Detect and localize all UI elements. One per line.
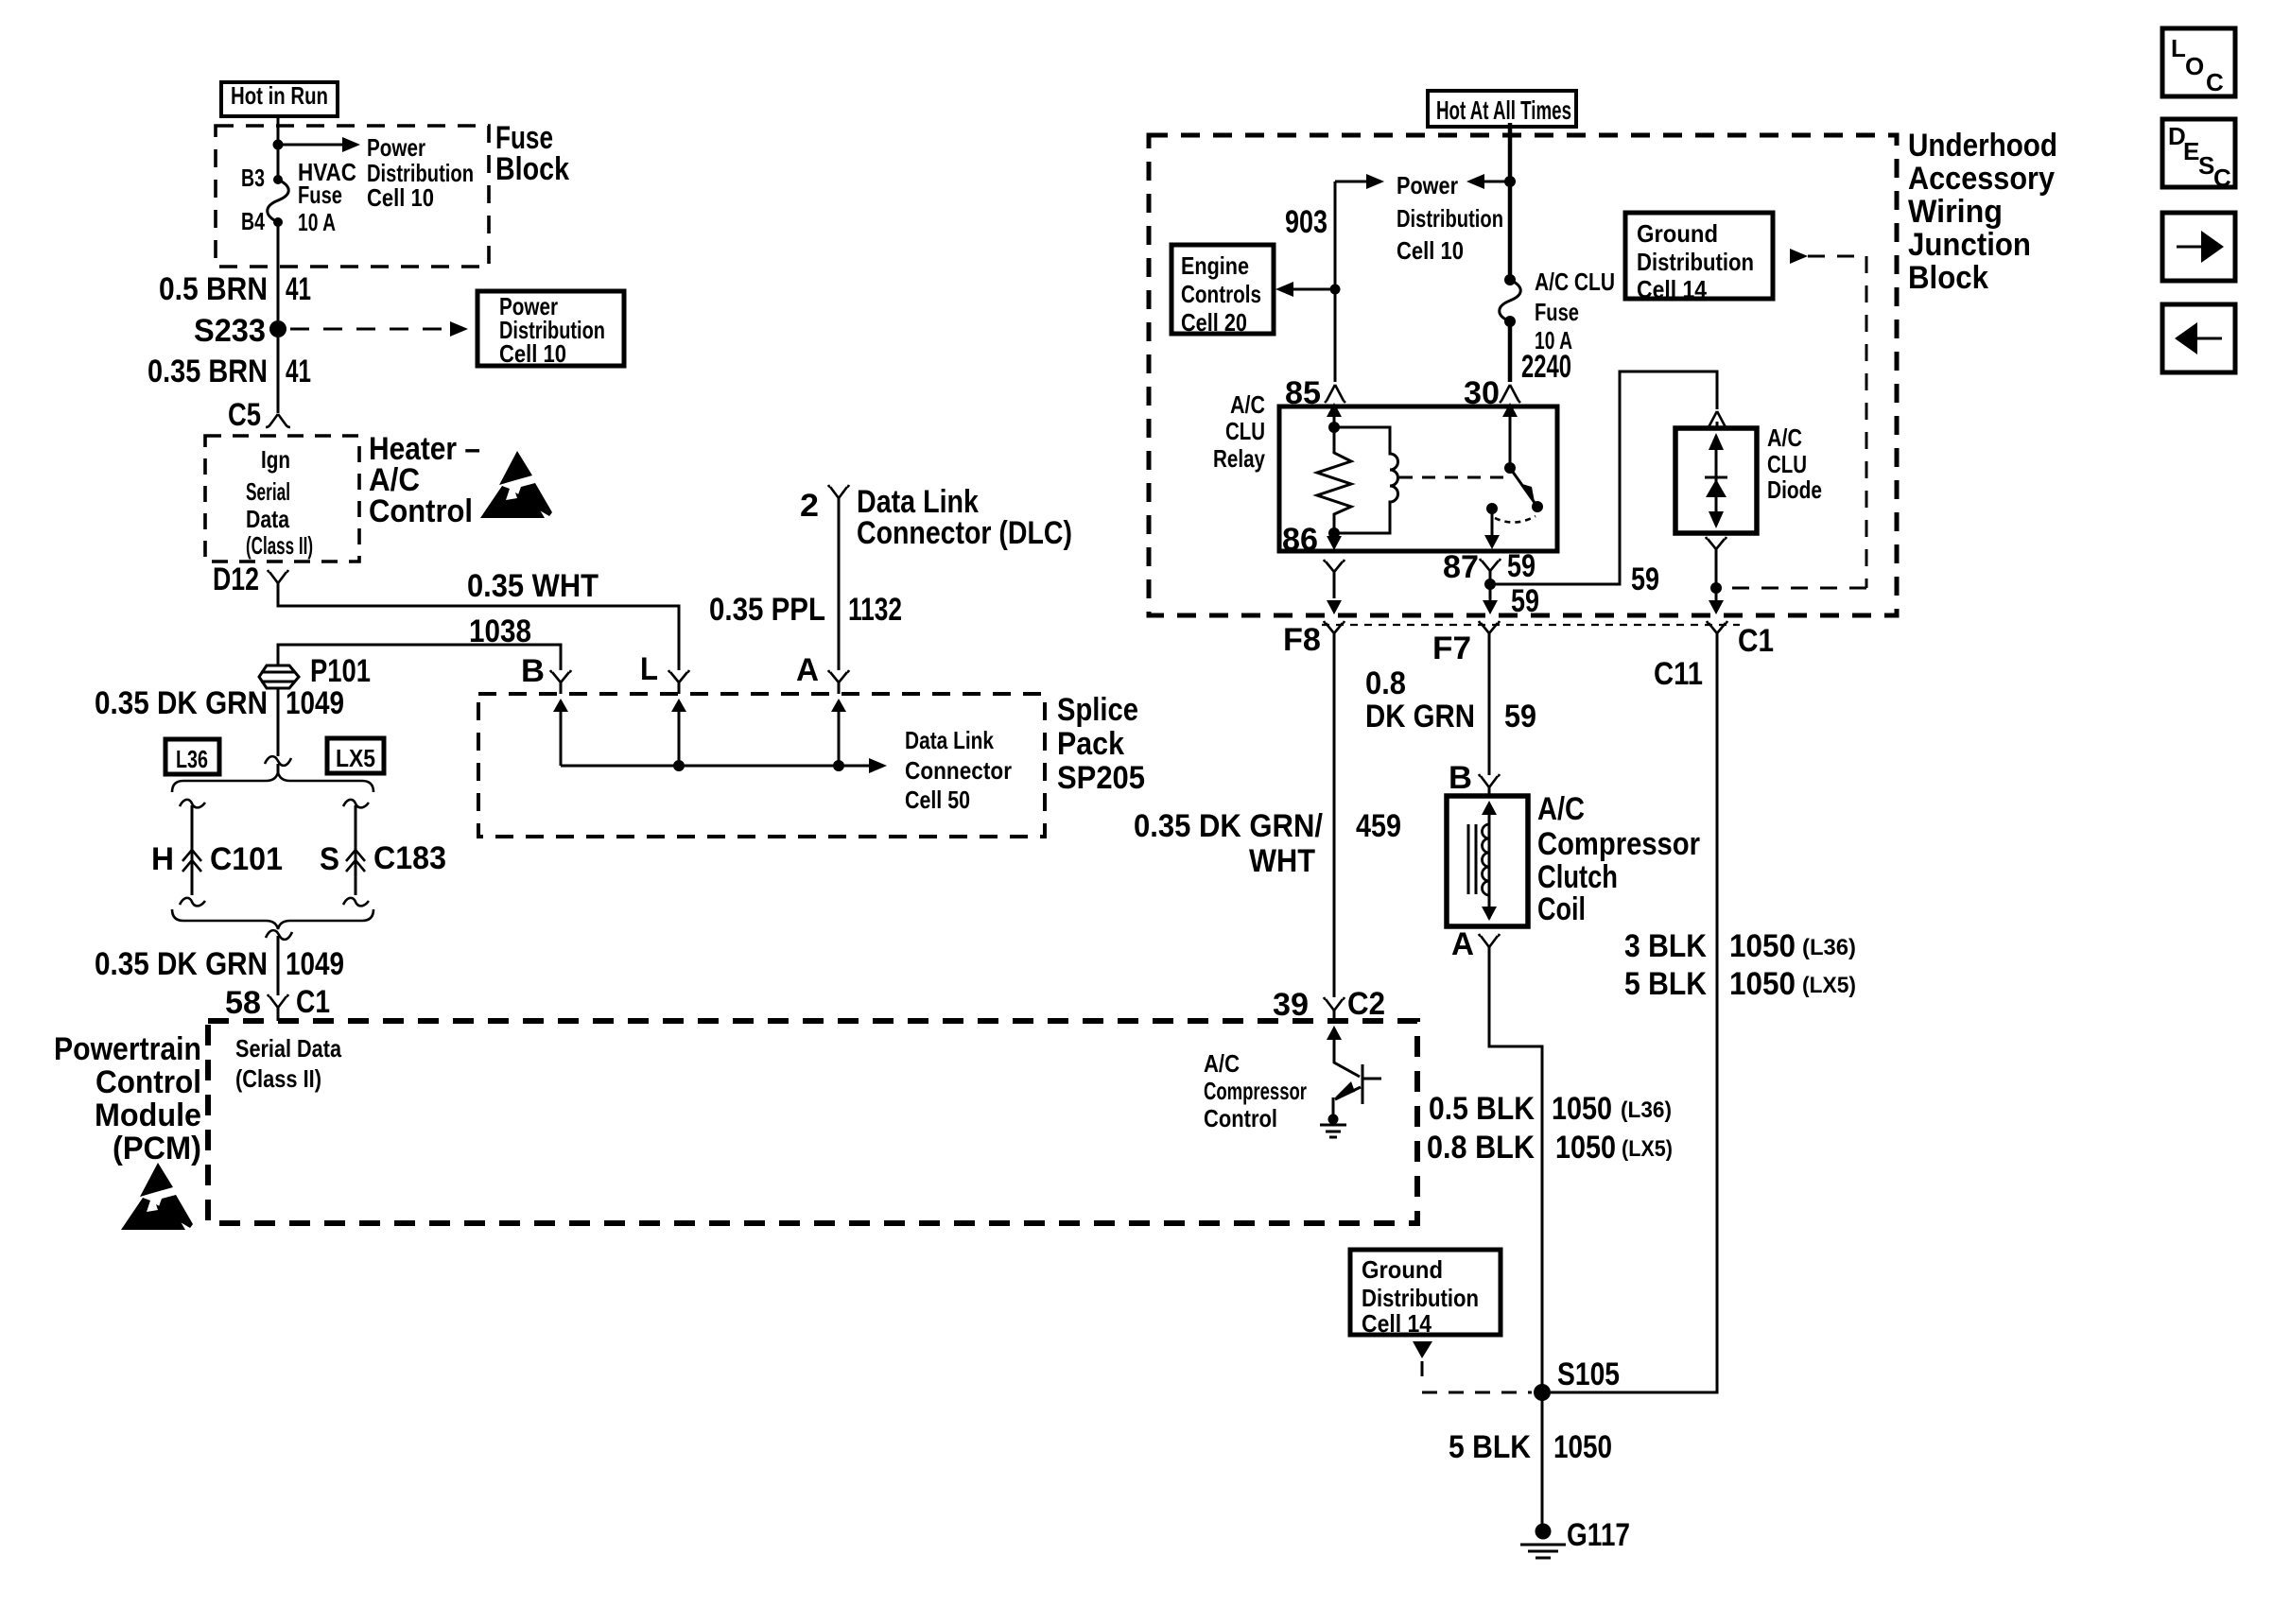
svg-text:A/C CLU: A/C CLU xyxy=(1535,268,1615,296)
wire: 0.35 DK GRN/WHT 459 from F8 to PCM C2 xyxy=(1333,633,1336,997)
svg-text:Hot At All Times: Hot At All Times xyxy=(1436,95,1571,125)
svg-text:LX5: LX5 xyxy=(336,744,375,772)
transistor emitter with arrow xyxy=(1333,1087,1361,1116)
svg-text:L36: L36 xyxy=(176,745,208,773)
svg-text:B: B xyxy=(521,653,545,689)
node: bus junction at A xyxy=(833,760,844,771)
svg-text:Cell 10: Cell 10 xyxy=(1397,236,1464,265)
svg-text:0.8 BLK: 0.8 BLK xyxy=(1427,1130,1535,1166)
svg-text:Controls: Controls xyxy=(1181,280,1261,308)
svg-text:Cell 20: Cell 20 xyxy=(1181,308,1247,337)
svg-text:F7: F7 xyxy=(1432,631,1471,666)
fuse block dashed box xyxy=(216,126,489,267)
internal arrow up to A xyxy=(838,712,841,766)
connector Y at DLC xyxy=(828,485,849,498)
svg-text:1049: 1049 xyxy=(286,685,344,721)
relay switch common terminal xyxy=(1486,503,1498,514)
arrow left to Engine Controls Cell 20 xyxy=(1293,288,1335,291)
svg-text:Distribution: Distribution xyxy=(1397,204,1503,233)
legend icon box LOC xyxy=(2162,28,2235,96)
clutch plates xyxy=(1468,824,1476,894)
svg-text:O: O xyxy=(2185,52,2204,80)
splice S105 xyxy=(1534,1384,1551,1401)
svg-text:1132: 1132 xyxy=(848,592,902,628)
svg-text:C101: C101 xyxy=(210,841,283,877)
svg-text:0.5 BRN: 0.5 BRN xyxy=(159,271,268,307)
svg-text:59: 59 xyxy=(1511,583,1539,619)
arrow left to Power Distribution Cell 10 xyxy=(1484,181,1510,183)
svg-text:Clutch: Clutch xyxy=(1537,859,1618,895)
svg-text:Connector: Connector xyxy=(905,756,1012,785)
A/C CLU Relay box xyxy=(1279,406,1557,551)
coil winding wavy xyxy=(1483,824,1489,895)
svg-text:0.35 DK GRN: 0.35 DK GRN xyxy=(95,946,268,982)
svg-text:Fuse: Fuse xyxy=(298,181,342,209)
reference box: Power Distribution Cell 10 xyxy=(477,291,624,366)
Heater A/C Control dashed box xyxy=(205,436,359,561)
svg-text:C5: C5 xyxy=(228,397,261,433)
svg-text:Cell 10: Cell 10 xyxy=(499,339,566,368)
wire: 0.35 BRN 41 from S233 to C5 xyxy=(277,329,280,413)
svg-text:0.35 PPL: 0.35 PPL xyxy=(709,592,825,628)
svg-text:Accessory: Accessory xyxy=(1908,161,2055,197)
svg-text:3 BLK: 3 BLK xyxy=(1624,928,1707,964)
A/C CLU Diode box xyxy=(1675,428,1757,533)
svg-text:0.35 DK GRN: 0.35 DK GRN xyxy=(95,685,268,721)
svg-text:S: S xyxy=(320,841,339,877)
svg-text:Control: Control xyxy=(1204,1104,1277,1132)
svg-text:Control: Control xyxy=(95,1064,201,1100)
svg-text:0.8: 0.8 xyxy=(1365,665,1406,701)
svg-text:E: E xyxy=(2183,137,2199,165)
svg-text:59: 59 xyxy=(1507,548,1536,584)
svg-text:C11: C11 xyxy=(1654,656,1703,692)
transistor base bar xyxy=(1362,1064,1364,1104)
svg-text:Block: Block xyxy=(495,151,569,187)
inline connection symbol below brace xyxy=(266,930,292,940)
svg-text:459: 459 xyxy=(1356,808,1401,844)
splice S233 xyxy=(269,320,286,337)
svg-text:C1: C1 xyxy=(296,984,330,1020)
branch H (C101) xyxy=(180,800,205,808)
internal arrow up to L xyxy=(678,712,681,766)
svg-text:S: S xyxy=(2198,151,2214,180)
svg-text:A/C: A/C xyxy=(1767,423,1802,452)
wire: 0.5 BRN 41 from fuse to S233 xyxy=(277,222,280,320)
legend icon box right-arrow xyxy=(2162,213,2235,281)
svg-text:Cell 50: Cell 50 xyxy=(905,786,970,814)
svg-text:A/C: A/C xyxy=(1230,390,1265,419)
svg-text:Wiring: Wiring xyxy=(1908,194,2003,230)
svg-text:(Class II): (Class II) xyxy=(235,1064,321,1093)
Underhood Accessory Wiring Junction Block dashed box xyxy=(1149,135,1897,615)
svg-text:CLU: CLU xyxy=(1767,450,1807,478)
junction block connector face (thin dashed) xyxy=(1322,624,1740,626)
svg-text:Control: Control xyxy=(369,493,473,529)
reference box: Ground Distribution Cell 14 (top) xyxy=(1625,213,1773,299)
svg-text:59: 59 xyxy=(1631,561,1659,597)
dashed reference arrow S233 to Power Distribution Cell 10 xyxy=(290,328,448,331)
relay coil exit arrow to 86 xyxy=(1333,533,1336,536)
svg-text:(L36): (L36) xyxy=(1621,1097,1672,1123)
svg-text:Data Link: Data Link xyxy=(905,726,994,754)
fuse HVAC Fuse 10 A xyxy=(268,180,289,222)
svg-text:C: C xyxy=(2206,68,2224,96)
node: feed junction dot xyxy=(1504,176,1516,187)
svg-text:DK GRN: DK GRN xyxy=(1365,699,1475,734)
wire: 1050 ground leg from C1 down to S105 xyxy=(1551,633,1717,1392)
reference box: Engine Controls Cell 20 xyxy=(1171,245,1274,334)
svg-text:A: A xyxy=(796,652,819,688)
svg-text:41: 41 xyxy=(286,271,311,307)
svg-text:P101: P101 xyxy=(310,653,371,689)
svg-text:Cell 14: Cell 14 xyxy=(1637,275,1707,303)
svg-text:Distribution: Distribution xyxy=(1362,1284,1479,1312)
svg-text:C1: C1 xyxy=(1738,623,1774,659)
relay switch: entry arrow from 30 xyxy=(1509,417,1512,468)
svg-text:0.5 BLK: 0.5 BLK xyxy=(1429,1091,1535,1127)
svg-text:C2: C2 xyxy=(1347,986,1385,1022)
wire: arrow to Power Distribution Cell 10 (in fuse block) xyxy=(278,144,342,147)
svg-text:Compressor: Compressor xyxy=(1204,1077,1307,1105)
wire: 5 BLK 1050 from S105 to G117 xyxy=(1541,1392,1544,1524)
svg-text:(LX5): (LX5) xyxy=(1802,973,1856,998)
pass-through grommet P101 xyxy=(259,665,299,688)
svg-text:Cell 14: Cell 14 xyxy=(1362,1309,1431,1338)
svg-text:1050: 1050 xyxy=(1729,966,1796,1002)
svg-text:1049: 1049 xyxy=(286,946,344,982)
node: diode/ground-link junction xyxy=(1710,582,1722,594)
svg-text:B: B xyxy=(1449,760,1472,796)
svg-text:1050: 1050 xyxy=(1553,1429,1612,1465)
svg-text:Underhood: Underhood xyxy=(1908,128,2057,164)
wire: 0.35 DK GRN 1049 below P101 xyxy=(277,688,280,756)
svg-text:S233: S233 xyxy=(194,313,266,349)
svg-text:0.35 WHT: 0.35 WHT xyxy=(467,568,599,604)
ESD sensitive symbol (heater) xyxy=(480,451,552,518)
lower brace xyxy=(172,909,373,929)
svg-text:(L36): (L36) xyxy=(1802,935,1856,960)
node: bus junction at L xyxy=(673,760,685,771)
svg-text:A: A xyxy=(1451,926,1474,962)
svg-text:A/C: A/C xyxy=(1537,791,1585,827)
diode element xyxy=(1705,476,1727,479)
svg-text:5 BLK: 5 BLK xyxy=(1624,966,1707,1002)
wire stub into brace xyxy=(277,764,280,773)
svg-text:903: 903 xyxy=(1285,204,1327,240)
svg-text:B3: B3 xyxy=(241,164,265,192)
inline connection symbol below P101 xyxy=(265,756,291,766)
svg-text:Power: Power xyxy=(367,133,425,162)
reference box: Ground Distribution Cell 14 (bottom) xyxy=(1350,1250,1501,1335)
wire: 903 branch with arrow to Power Distribution xyxy=(1335,181,1366,183)
ESD sensitive symbol (PCM) xyxy=(121,1163,193,1230)
wire: 0.35 PPL 1132 from DLC to splice pack A xyxy=(838,498,841,670)
svg-text:G117: G117 xyxy=(1567,1517,1630,1553)
svg-text:Serial: Serial xyxy=(246,477,290,506)
splice pack internal bus wire xyxy=(561,765,869,768)
svg-text:1050: 1050 xyxy=(1552,1091,1612,1127)
wire: 2240 from fuse to relay 30 xyxy=(1508,321,1513,382)
node: junction dot on feed xyxy=(273,140,284,150)
svg-text:(Class II): (Class II) xyxy=(246,531,313,560)
relay mechanical linkage dashed xyxy=(1399,476,1503,479)
svg-text:2240: 2240 xyxy=(1521,349,1571,385)
dashed link from Ground Distribution to S105 xyxy=(1413,1341,1432,1358)
wire: 59 down from 87 junction to F7 xyxy=(1489,584,1492,600)
svg-text:D12: D12 xyxy=(213,561,259,597)
legend icon box left-arrow xyxy=(2162,304,2235,372)
ground symbol (PCM driver) xyxy=(1328,1114,1339,1125)
svg-text:Distribution: Distribution xyxy=(1637,248,1754,276)
wire: 0.35 WHT 1038 from D12 to splice pack L xyxy=(278,583,679,670)
wire: ground leg from coil A to S105 xyxy=(1489,947,1542,1392)
svg-text:Power: Power xyxy=(1397,171,1458,199)
svg-text:Coil: Coil xyxy=(1537,891,1586,927)
node: 87 junction dot xyxy=(1484,579,1496,590)
svg-text:L: L xyxy=(2171,34,2186,62)
svg-text:Ign: Ign xyxy=(261,445,290,474)
svg-text:B4: B4 xyxy=(241,207,265,235)
fuse A/C CLU Fuse 10 A xyxy=(1504,274,1516,285)
svg-text:(LX5): (LX5) xyxy=(1622,1136,1673,1162)
svg-text:Module: Module xyxy=(95,1097,201,1133)
upper brace xyxy=(172,772,373,792)
relay coil branch: entry arrow xyxy=(1333,417,1336,427)
diode bottom connector chevron xyxy=(1706,537,1726,549)
relay terminal 86 connector xyxy=(1324,560,1345,572)
svg-text:Serial Data: Serial Data xyxy=(235,1034,341,1063)
svg-text:Cell 10: Cell 10 xyxy=(367,183,434,212)
wire: Hot in Run feed down into fuse block xyxy=(277,116,280,180)
A/C Compressor Clutch Coil box xyxy=(1447,796,1528,926)
svg-text:Engine: Engine xyxy=(1181,251,1249,280)
wire: 1038 line from P101 to splice pack B xyxy=(278,645,561,670)
svg-text:58: 58 xyxy=(225,985,261,1021)
svg-text:5 BLK: 5 BLK xyxy=(1449,1429,1531,1465)
svg-text:Hot in Run: Hot in Run xyxy=(231,81,328,110)
svg-text:Compressor: Compressor xyxy=(1537,826,1700,862)
svg-text:CLU: CLU xyxy=(1225,417,1265,445)
svg-text:0.35 DK GRN/: 0.35 DK GRN/ xyxy=(1134,808,1323,844)
svg-text:0.35 BRN: 0.35 BRN xyxy=(147,354,268,389)
branch S (C183) xyxy=(343,800,369,808)
relay coil winding xyxy=(1334,427,1398,533)
label box "Hot At All Times" xyxy=(1428,91,1576,127)
svg-text:39: 39 xyxy=(1273,987,1309,1023)
svg-text:1038: 1038 xyxy=(469,613,531,649)
legend icon box DESC xyxy=(2162,119,2235,187)
svg-text:Ground: Ground xyxy=(1637,219,1718,248)
wire: 59 over relay to A/C CLU diode xyxy=(1490,371,1717,584)
svg-text:Pack: Pack xyxy=(1057,726,1124,762)
node: junction dot to Engine Controls xyxy=(1330,285,1341,295)
svg-text:Powertrain: Powertrain xyxy=(54,1031,201,1067)
svg-text:Splice: Splice xyxy=(1057,692,1138,728)
dashed reference link from Ground Distribution to diode node xyxy=(1790,249,1808,264)
svg-text:Fuse: Fuse xyxy=(1535,298,1579,326)
svg-text:87: 87 xyxy=(1443,549,1479,585)
svg-text:41: 41 xyxy=(286,354,311,389)
svg-text:Ground: Ground xyxy=(1362,1255,1443,1284)
svg-text:Block: Block xyxy=(1908,260,1988,296)
svg-text:1050: 1050 xyxy=(1555,1130,1616,1166)
PCM dashed box xyxy=(208,1021,1417,1223)
label box "Hot in Run" xyxy=(221,82,338,116)
svg-text:C: C xyxy=(2213,164,2231,192)
engine option box LX5 xyxy=(327,738,384,773)
svg-text:H: H xyxy=(151,841,174,877)
svg-text:Connector (DLC): Connector (DLC) xyxy=(857,515,1072,551)
svg-text:Relay: Relay xyxy=(1213,444,1265,473)
svg-text:SP205: SP205 xyxy=(1057,760,1145,796)
splice pack SP205 dashed box xyxy=(478,694,1045,837)
svg-text:1050: 1050 xyxy=(1729,928,1796,964)
svg-text:Data: Data xyxy=(246,505,289,533)
engine option box L36 xyxy=(165,739,219,774)
svg-text:F8: F8 xyxy=(1283,622,1321,658)
relay resistor xyxy=(1317,427,1351,532)
svg-text:WHT: WHT xyxy=(1249,843,1315,879)
wire: hot feed into junction block xyxy=(1508,123,1513,280)
relay switch pivot and blade xyxy=(1504,462,1516,474)
svg-text:2: 2 xyxy=(800,488,819,524)
svg-text:Junction: Junction xyxy=(1908,227,2031,263)
wire: 0.8 DK GRN 59 from F7 to clutch coil B xyxy=(1488,633,1491,775)
svg-text:S105: S105 xyxy=(1557,1356,1620,1392)
diode top connector chevron xyxy=(1707,411,1727,429)
svg-text:A/C: A/C xyxy=(1204,1049,1240,1078)
internal arrow up to B xyxy=(560,712,563,766)
svg-text:10 A: 10 A xyxy=(298,208,336,236)
svg-text:59: 59 xyxy=(1504,699,1536,734)
svg-text:(PCM): (PCM) xyxy=(113,1131,201,1166)
ground G117 xyxy=(1536,1524,1552,1540)
svg-text:86: 86 xyxy=(1282,522,1318,558)
svg-text:L: L xyxy=(640,651,658,687)
wire: 0.35 DK GRN 1049 to PCM xyxy=(277,936,280,995)
svg-text:Diode: Diode xyxy=(1767,475,1822,504)
svg-text:C183: C183 xyxy=(373,840,446,876)
